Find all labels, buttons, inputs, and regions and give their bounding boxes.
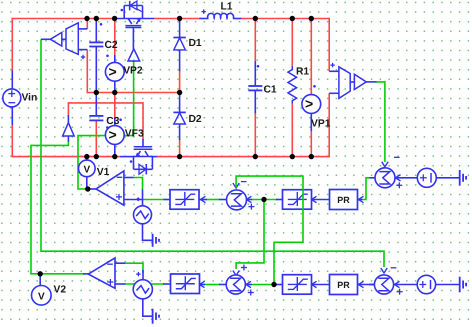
summer S2: [375, 157, 402, 188]
wire C2 lower lead: [95, 46, 97, 92]
svg-text:PR: PR: [337, 195, 350, 205]
svg-text:V: V: [38, 292, 45, 303]
wire L1 left stub: [199, 18, 208, 20]
wire summer S3 left stub: [219, 284, 226, 286]
wire C1 upper red: [254, 19, 256, 63]
wire box B4 left stub: [276, 284, 283, 286]
wire op-amp U6 minus to sine V4: [125, 263, 144, 273]
wire summer S2 top arrow: [382, 162, 388, 167]
wire box B1 left stub: [164, 199, 171, 201]
wire VP2 leads: [114, 55, 116, 93]
wire sensor U4 output to summer S2 top: [376, 82, 385, 162]
wire box B2 to PR1 link: [311, 196, 330, 202]
wire top bus mid segment: [154, 18, 200, 20]
summer S1: [227, 182, 255, 210]
wire summer S4 top arrow: [381, 268, 387, 273]
wire PR1 to summer S2 jog: [362, 178, 370, 200]
wire D2 upper lead: [179, 93, 181, 113]
wire summer S4 to source V6: [394, 281, 418, 287]
wire sensor U1 output net (to summer S4 top): [41, 39, 384, 267]
wire op-amp U5 plus stub: [125, 197, 143, 201]
wire VP2 upper red: [114, 19, 116, 57]
wire Vin bottom lead: [11, 107, 13, 126]
capacitor C3: [89, 116, 119, 127]
wire R1 upper red: [291, 19, 293, 66]
wire op-amp U5 minus input to sine V3: [133, 178, 143, 191]
wire sine V4 top lead: [142, 270, 144, 280]
transistor M2 (bottom MOSFET with body diode): [134, 147, 153, 175]
wire C3 lower red: [95, 121, 97, 157]
wire PR2 to box B4 link: [311, 281, 330, 287]
wire D1 to mid: [179, 50, 181, 72]
wire summer S1 top arrow: [233, 183, 239, 188]
capacitor C2: [89, 40, 118, 51]
transistor M1 (top MOSFET with body diode): [124, 1, 142, 28]
resistor R1: [288, 66, 309, 104]
wire node S1-S3 branch: [236, 200, 264, 270]
wire mid bus: [87, 92, 179, 94]
wire M2 gate lead: [142, 139, 144, 147]
wire top bus left segment: [12, 18, 114, 20]
svg-text:VP2: VP2: [123, 65, 143, 76]
wire summer S3 top arrow: [233, 271, 239, 276]
wire summer S3 right stub: [245, 281, 252, 287]
wire op-amp U6 output stub: [83, 274, 126, 284]
limiter B1: [170, 190, 199, 210]
wire V1 top lead: [86, 157, 88, 161]
wire summer S3 to box B3: [204, 284, 220, 286]
limiter B4: [283, 275, 312, 295]
wire L1 right stub: [233, 18, 242, 20]
voltmeter V2: [32, 285, 67, 306]
wire box B3 right stub: [199, 281, 206, 287]
probe VF3: [105, 126, 144, 145]
wire left vertical top (Vin to top bus): [11, 18, 13, 71]
wire summer S1 left stub: [219, 199, 227, 201]
svg-text:V2: V2: [54, 285, 67, 296]
wire C2 upper lead: [95, 19, 97, 43]
diode D2: [173, 112, 202, 125]
wire sine V3 top lead: [142, 190, 144, 207]
wire triangle A1 apex lead: [67, 115, 69, 123]
wire D2 lower lead: [179, 124, 181, 141]
wire D2 lower red: [179, 139, 181, 157]
svg-text:>: >: [109, 127, 117, 143]
wire PR2 to summer S4 link: [358, 281, 376, 287]
wire summer S1 right stub: [246, 196, 252, 202]
inductor L1: [202, 1, 234, 18]
svg-text:Vin: Vin: [22, 93, 38, 104]
voltage source Vin: [3, 89, 38, 107]
wire VF3 leads: [114, 118, 116, 157]
wire sensor U4 output stub: [366, 81, 376, 83]
wire VF3 upper red: [114, 93, 116, 119]
probe VP2: [105, 62, 143, 81]
wire left vertical bottom: [11, 125, 13, 157]
summer S4: [374, 268, 402, 295]
wire sensor U1 top stub riser: [86, 19, 88, 29]
svg-text:VP1: VP1: [311, 118, 331, 129]
wire triangle A1 base lead: [67, 136, 69, 142]
buffer A1 (M2 gate driver, points up): [63, 123, 75, 136]
wire sensor U4 top stub: [329, 70, 339, 72]
wire box B3 left stub: [163, 283, 171, 285]
wire box B3 to op-amp U6 plus (through sine V4): [125, 283, 164, 285]
wire op-amp U5 output to M1 gate driver: [78, 62, 134, 190]
wire summer S1 top input net (from row B node, crosses box B2): [236, 176, 303, 284]
wire VP1 lower red: [310, 130, 312, 157]
svg-text:>: >: [109, 63, 117, 79]
wire box B2 left stub: [276, 199, 283, 201]
svg-text:V: V: [83, 164, 90, 175]
sensor U1 (differential voltage sensor, output left): [50, 23, 78, 55]
wire R1 lower red: [291, 104, 293, 157]
ground right A: [460, 170, 466, 186]
wire C3 upper lead: [95, 93, 97, 117]
wire box B4 to summer S3: [252, 284, 277, 286]
wire bottom bus M2 right stub: [152, 156, 158, 158]
svg-text:PR: PR: [337, 280, 350, 290]
wire sensor U1 top stub: [78, 28, 87, 30]
svg-text:C1: C1: [264, 84, 277, 95]
sensor U4 (differential voltage sensor, output right): [339, 67, 366, 99]
wire VP1 upper red: [310, 19, 312, 96]
wire D1 upper lead: [179, 19, 181, 39]
wire M1 gate lead: [132, 27, 134, 49]
diode D1: [173, 38, 202, 50]
limiter B3: [171, 274, 200, 294]
wire sensor U1 output stub: [41, 38, 50, 40]
wire box B1 right stub: [200, 196, 208, 202]
wire sensor U4 bottom stub: [329, 92, 339, 94]
wire op-amp U6 output net (to M2 gate driver A1): [31, 141, 84, 274]
wire bottom bus M2 left stub: [120, 156, 134, 158]
summer S3: [226, 265, 254, 296]
wire Vin top lead: [11, 71, 13, 90]
wire op-amp U5 plus input from limiter: [143, 199, 165, 201]
polarity markers: [81, 9, 335, 163]
wire limiter B1 to summer S1: [206, 199, 220, 201]
wire V1 bottom lead: [86, 177, 88, 189]
wire gate loop M2 (red rect): [68, 103, 143, 140]
wire mid bus left riser: [86, 50, 88, 94]
op-amp U6 (comparator, output left): [88, 258, 115, 288]
wire top bus M1 segment: [115, 18, 154, 20]
ground for V3: [143, 224, 160, 247]
wire summer S2 left stub: [370, 177, 376, 179]
PR controller PR2: [330, 275, 358, 295]
wire C1 lower red: [254, 112, 256, 156]
wire op-amp U5 minus stub: [125, 177, 134, 179]
svg-text:L1: L1: [221, 1, 233, 12]
wire right vertical upper (top bus to sensor U4 +): [328, 18, 330, 72]
wire source V6 to ground: [435, 284, 459, 286]
wire sensor U1 bottom stub: [78, 49, 87, 51]
wire summer S4 left stub: [369, 284, 375, 286]
voltmeter V1: [79, 160, 110, 178]
svg-text:VF3: VF3: [125, 129, 144, 140]
wire D1 lower red: [179, 70, 181, 93]
wire bottom bus right segment: [157, 156, 329, 158]
svg-text:D2: D2: [189, 114, 202, 125]
PR controller PR1: [330, 190, 358, 210]
limiter B2: [283, 190, 312, 210]
ground right B: [460, 277, 466, 293]
ground for V4: [143, 299, 159, 324]
wire C1 upper lead: [254, 61, 256, 86]
op-amp U5 (comparator, output left): [96, 171, 124, 205]
wire bottom bus left segment: [12, 156, 120, 158]
wire PR1 right stub: [358, 196, 364, 202]
sine source V4 (carrier): [133, 272, 152, 299]
wire source V5 to ground: [436, 177, 460, 179]
reference source V6: [417, 275, 435, 293]
svg-text:R1: R1: [296, 67, 309, 78]
wire op-amp U6 plus arrow: [0, 0, 1, 1]
wire C1 lower lead: [254, 90, 256, 113]
svg-text:D1: D1: [189, 38, 202, 49]
wire VP1 lower lead: [310, 113, 312, 131]
wire summer S4 out to PR2: [369, 284, 375, 286]
capacitor C1: [248, 84, 277, 95]
svg-text:C2: C2: [105, 40, 118, 51]
wire right vertical lower (sensor U4 - to bottom bus): [328, 93, 330, 157]
svg-text:>: >: [305, 96, 313, 112]
wire V2 top lead: [39, 274, 41, 286]
wire op-amp U5 output stub: [88, 188, 97, 190]
svg-text:V1: V1: [97, 167, 110, 178]
wire top bus right segment: [241, 18, 329, 20]
wire op-amp U6 minus stub: [115, 262, 125, 264]
wire summer S2 to source V5: [395, 175, 418, 181]
reference source V5: [417, 168, 436, 187]
buffer A2 (M1 gate driver, points up): [128, 49, 140, 61]
sine source V3 (carrier): [134, 206, 152, 224]
wire triangle A2 base lead: [133, 61, 135, 62]
probe VP1: [302, 95, 331, 130]
wire summer S1 right input: [251, 199, 277, 201]
